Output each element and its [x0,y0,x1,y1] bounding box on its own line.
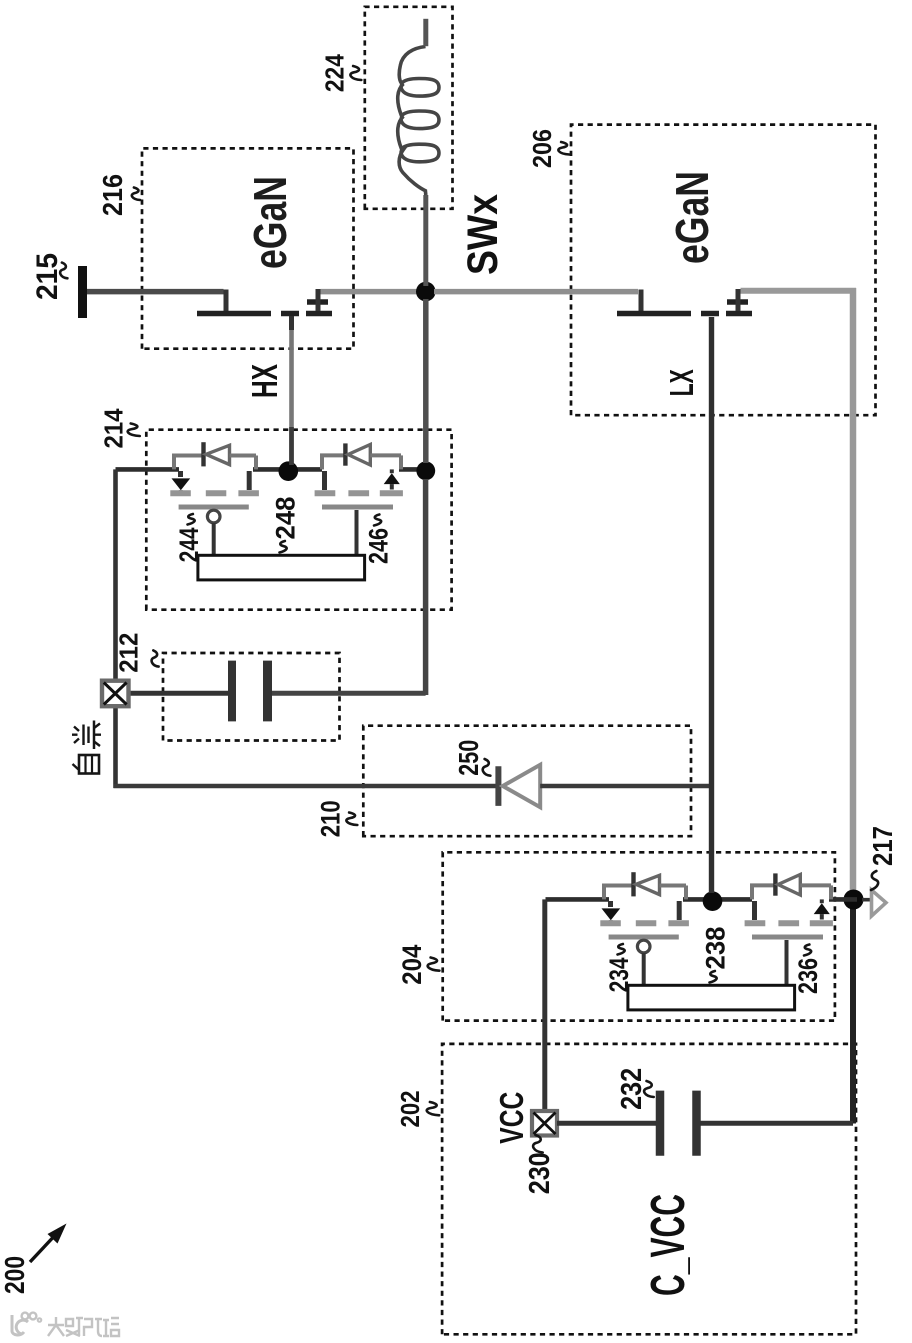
svg-text:230: 230 [524,1152,556,1194]
box 206 (low-side eGaN) [571,125,876,416]
svg-text:232: 232 [616,1068,648,1110]
bootstrap pin (crossed square) [102,681,129,707]
box 212 (bootstrap cap) [163,653,340,741]
wire driver214 low rail to SWx node [423,299,429,463]
svg-text:217: 217 [867,826,898,866]
diode across 246 [320,443,401,469]
svg-text:224: 224 [320,54,350,92]
svg-text:248: 248 [270,497,300,540]
inductor 224 coil [398,47,439,196]
inductor right stub [423,19,428,46]
svg-text:202: 202 [395,1091,425,1128]
wire VCC pin to driver 204 [542,899,547,1110]
node 238 (driver output dot) [703,891,723,911]
svg-text:VCC: VCC [493,1092,530,1144]
box 202 (VCC cap) [442,1044,856,1334]
wire VCC pin to cap 232 [557,1121,656,1126]
wire driver bottom rail [399,467,427,472]
wire HX (gate drive to FET216) [289,427,294,465]
box 224 (inductor) [365,7,453,209]
diode 250 [498,765,540,807]
diode across 236 [750,873,831,899]
capacitor 232 top plate [656,1091,665,1156]
svg-text:244: 244 [174,527,204,562]
box 204 (low-side driver) [443,852,835,1020]
svg-text:C_VCC: C_VCC [642,1194,695,1296]
wire dot to terminal 217 [862,898,871,902]
box 216 (high-side eGaN) [142,148,354,348]
transistor 216 (high-side eGaN FET) [197,289,332,314]
wire bootstrap rail (pin 212 to driver 214) [113,469,118,788]
input buffer rectangle [198,555,365,580]
wire driver mid rail [253,467,322,472]
svg-text:206: 206 [527,129,557,168]
svg-text:212: 212 [113,633,143,673]
VCC pin 230 (crossed square) [532,1111,557,1136]
svg-text:LX: LX [663,369,700,396]
svg-text:210: 210 [316,800,346,837]
capacitor 232 bottom plate [692,1091,701,1156]
wire SWx node to FET206 drain [434,289,638,295]
ground rail (gray) [850,288,857,893]
wire cap 232 bottom to ground rail [701,1121,854,1126]
wire driver214 low rail to bootstrap cap [423,479,429,695]
node ground dot [844,890,864,910]
wire driver mid rail [683,897,752,902]
terminal 217 (open triangle) [872,890,887,916]
wire LX (gate drive to FET206) [709,317,714,893]
svg-text:SWx: SWx [459,194,507,275]
box 214 (high-side driver) [146,430,451,610]
svg-text:214: 214 [99,408,129,448]
watermark text [48,1317,119,1336]
box 210 (bootstrap diode) [363,726,691,837]
svg-text:246: 246 [363,528,393,564]
arrow 200 [30,1231,59,1262]
svg-text:236: 236 [793,958,823,994]
wire SWx node to inductor [423,195,428,286]
supply bar 215 [78,266,87,318]
wire 215 to FET216 drain [87,289,224,295]
wire bootstrap rail to diode 250 cathode [114,784,497,789]
svg-text:250: 250 [453,740,484,776]
diode across 234 [602,872,686,899]
ground rail (dark, to C_VCC) [850,906,856,1124]
node SWx dot [416,282,436,302]
svg-text:204: 204 [397,945,427,985]
transistor 246 [315,469,403,555]
transistor 234 [600,901,689,985]
label bootstrap (Chinese) [73,755,100,774]
wire FET206 source down [741,288,857,294]
svg-text:215: 215 [31,253,64,300]
wire cap212 top to bootstrap pin [116,691,228,696]
svg-text:234: 234 [604,957,634,992]
svg-text:216: 216 [97,174,128,216]
svg-text:200: 200 [0,1256,30,1294]
wire driver top rail [546,897,610,902]
transistor 236 [745,899,833,985]
wire bootstrap cap bottom feed [270,691,426,696]
watermark logo [12,1313,41,1335]
input buffer rectangle [628,985,795,1010]
svg-text:238: 238 [700,927,730,970]
capacitor 212 bottom plate [263,661,272,722]
node dot (driver 214 low rail) [416,461,435,480]
svg-text:HX: HX [244,364,285,398]
transistor 244 [170,471,259,555]
wire FET216 source to SWx node [321,289,418,295]
transistor 206 (low-side eGaN FET) [617,289,752,314]
svg-text:eGaN: eGaN [244,176,296,269]
wire driver bottom rail [829,897,857,902]
capacitor 212 top plate [228,661,236,722]
svg-text:eGaN: eGaN [666,171,718,264]
wire diode 250 anode to LX net [540,784,713,789]
diode across 244 [172,442,256,469]
wire driver top rail [116,467,180,472]
node 248 (driver output dot) [279,461,299,481]
